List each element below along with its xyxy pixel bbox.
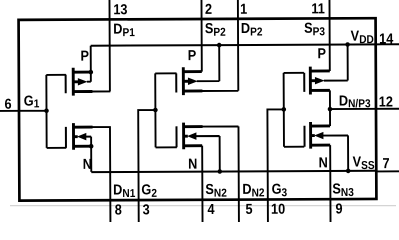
svg-text:14: 14 xyxy=(379,31,394,47)
svg-text:VSS: VSS xyxy=(353,154,375,173)
svg-text:11: 11 xyxy=(311,1,325,17)
svg-text:9: 9 xyxy=(335,201,343,217)
svg-text:12: 12 xyxy=(379,94,394,110)
svg-text:SP3: SP3 xyxy=(304,20,325,39)
svg-text:G3: G3 xyxy=(272,181,288,200)
svg-text:8: 8 xyxy=(115,202,123,218)
svg-text:DN2: DN2 xyxy=(242,181,264,200)
svg-text:4: 4 xyxy=(207,201,215,217)
svg-text:7: 7 xyxy=(383,155,390,171)
svg-text:N: N xyxy=(188,156,197,172)
svg-text:N: N xyxy=(319,155,328,171)
svg-text:DP1: DP1 xyxy=(113,21,135,40)
svg-text:DN/P3: DN/P3 xyxy=(339,93,371,111)
svg-text:DP2: DP2 xyxy=(241,20,263,39)
svg-text:G1: G1 xyxy=(24,93,40,111)
svg-text:P: P xyxy=(188,47,197,63)
svg-text:SN2: SN2 xyxy=(205,181,227,200)
svg-text:DN1: DN1 xyxy=(113,182,135,201)
svg-text:6: 6 xyxy=(4,96,12,112)
svg-text:SN3: SN3 xyxy=(332,181,354,200)
svg-text:VDD: VDD xyxy=(351,28,374,47)
svg-text:10: 10 xyxy=(271,201,286,217)
svg-text:5: 5 xyxy=(245,201,253,217)
svg-text:P: P xyxy=(317,45,326,61)
svg-text:G2: G2 xyxy=(141,182,157,201)
svg-text:2: 2 xyxy=(205,1,213,17)
svg-text:13: 13 xyxy=(113,1,128,17)
svg-text:P: P xyxy=(80,48,89,64)
svg-text:SP2: SP2 xyxy=(205,20,226,39)
svg-text:1: 1 xyxy=(240,1,248,17)
svg-text:N: N xyxy=(83,156,92,172)
svg-text:3: 3 xyxy=(143,202,151,218)
